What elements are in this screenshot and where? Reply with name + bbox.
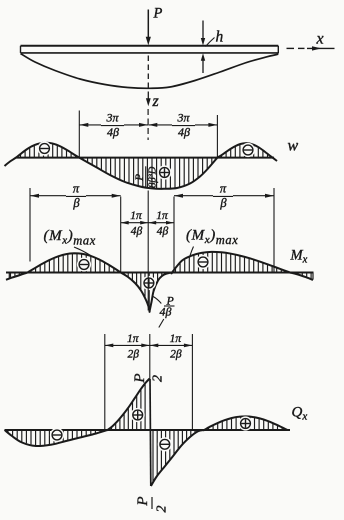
- w baseline: [16, 157, 275, 159]
- Qx curve right: [151, 416, 288, 486]
- hatch Mx left lobe: [31, 254, 118, 272]
- Qx baseline: [5, 429, 291, 431]
- dim line 3pi/4b left: [79, 123, 148, 127]
- label 1pi/2b left: [127, 333, 140, 361]
- minus sign Qx left: [50, 428, 64, 442]
- svg-text:4β: 4β: [131, 226, 143, 238]
- svg-text:z: z: [152, 93, 160, 110]
- svg-text:4β: 4β: [157, 226, 169, 238]
- label 3pi/4b left: [105, 111, 119, 140]
- hatch w right lobe: [222, 144, 268, 157]
- leader to h: [206, 38, 215, 47]
- dim line 1pi/4b pair: [121, 221, 174, 225]
- svg-text:(Mx)max: (Mx)max: [44, 228, 96, 248]
- dim verticals Mx: [30, 188, 274, 311]
- beam slab (plate of thickness h): [21, 46, 279, 54]
- dim line pi/b left: [30, 194, 121, 198]
- plus sign Mx spike: [142, 276, 156, 290]
- svg-text:x: x: [316, 31, 324, 48]
- minus sign Mx left: [77, 257, 91, 271]
- thickness dimension h arrows: [201, 21, 205, 74]
- Qx curve left: [5, 379, 150, 447]
- label P/2 bottom (rotated): [135, 496, 170, 512]
- hatch Mx right lobe: [176, 252, 282, 272]
- svg-text:P: P: [132, 373, 148, 383]
- plus sign Qx rise: [131, 408, 145, 422]
- hatch w centre lobe: [83, 158, 212, 188]
- deflected surface under plate: [21, 54, 279, 89]
- label 3pi/4b right: [176, 111, 190, 140]
- svg-text:1π: 1π: [130, 210, 143, 222]
- svg-text:h: h: [216, 29, 224, 46]
- svg-text:1π: 1π: [156, 210, 169, 222]
- dim line 3pi/4b right: [148, 123, 217, 127]
- dim line 1pi/2b pair: [105, 344, 193, 348]
- leader to P/4b: [153, 297, 161, 304]
- svg-text:w: w: [288, 138, 299, 155]
- minus sign w left: [37, 141, 51, 155]
- Mx baseline: [6, 272, 314, 274]
- x axis dash-dot with arrow: [287, 46, 335, 50]
- svg-text:P: P: [135, 496, 151, 506]
- svg-text:(Mx)max: (Mx)max: [186, 228, 238, 248]
- dim ticks 3pi/4b: [79, 111, 217, 158]
- svg-text:2: 2: [155, 506, 170, 513]
- leader (Mx)max right: [190, 247, 194, 258]
- svg-text:2: 2: [150, 375, 165, 382]
- hatch Mx spike: [124, 273, 162, 309]
- dim line pi/b right: [174, 194, 274, 198]
- label 1pi/2b right: [170, 333, 183, 361]
- label P/2 top (rotated): [132, 373, 166, 383]
- hatch Mx left sliver: [11, 273, 20, 278]
- svg-text:4β: 4β: [160, 305, 172, 319]
- svg-text:P: P: [134, 174, 146, 182]
- dim verticals Qx: [105, 334, 193, 430]
- plus sign Qx right: [238, 416, 252, 430]
- svg-text:3π: 3π: [105, 111, 119, 125]
- hatch Qx rise lobe: [112, 384, 146, 430]
- svg-text:P: P: [153, 6, 163, 22]
- load arrow P: [146, 10, 151, 46]
- svg-text:Mx: Mx: [290, 248, 308, 266]
- hatch Qx left dish: [8, 430, 100, 445]
- leader (Mx)max left: [74, 247, 93, 257]
- label 1pi/4b right: [156, 210, 169, 238]
- z axis dashed with arrow: [146, 56, 151, 141]
- Mx curve: [6, 252, 313, 312]
- svg-text:β: β: [72, 196, 80, 210]
- Qx spike vertical: [149, 379, 152, 486]
- label P/8b3D (rotated): [134, 166, 159, 188]
- Mx right edge tick: [312, 273, 314, 280]
- svg-text:2β: 2β: [128, 349, 140, 361]
- svg-text:4β: 4β: [107, 125, 119, 139]
- svg-text:8β³D: 8β³D: [148, 166, 159, 188]
- hatch Qx drop lobe: [153, 430, 195, 482]
- hatch w left lobe: [21, 143, 76, 157]
- w curve: [5, 143, 278, 189]
- label P/4b: [159, 294, 175, 328]
- svg-text:1π: 1π: [127, 333, 140, 345]
- svg-text:Qx: Qx: [292, 405, 308, 423]
- svg-text:1π: 1π: [170, 333, 183, 345]
- hatch Qx right lobe: [209, 417, 283, 430]
- minus sign Qx drop: [158, 437, 172, 451]
- minus sign w right: [241, 143, 255, 157]
- svg-text:π: π: [220, 182, 227, 196]
- svg-text:π: π: [73, 182, 80, 196]
- svg-text:2β: 2β: [170, 349, 182, 361]
- hatch Mx right sliver: [298, 273, 311, 279]
- label pi/b left: [72, 182, 80, 211]
- Mx left edge tick: [8, 273, 10, 279]
- svg-text:3π: 3π: [176, 111, 190, 125]
- plus sign w centre: [157, 165, 171, 179]
- label pi/b right: [219, 182, 227, 211]
- svg-text:4β: 4β: [178, 125, 190, 139]
- minus sign Mx right: [196, 255, 210, 269]
- label 1pi/4b left: [130, 210, 143, 238]
- svg-text:β: β: [219, 196, 227, 210]
